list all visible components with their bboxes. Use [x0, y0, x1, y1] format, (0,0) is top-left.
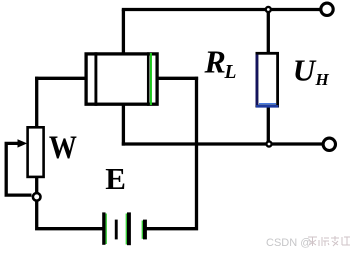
resistor RL	[256, 53, 278, 106]
wire hall left	[35, 77, 87, 80]
wire hall top stub	[122, 10, 125, 56]
svg-text:H: H	[315, 70, 330, 89]
wire top horizontal	[122, 8, 322, 11]
battery E	[102, 212, 147, 245]
junction node bottom	[266, 141, 271, 146]
plate 2 short	[115, 220, 118, 240]
wire hall right	[156, 77, 198, 80]
wire resistor bottom stub	[267, 106, 270, 145]
svg-text:L: L	[224, 62, 237, 83]
wire potentiometer to battery bottom left	[37, 201, 103, 229]
wire left vertical to potentiometer	[35, 77, 38, 129]
plate 4 short	[143, 220, 147, 240]
wire right vertical down to battery	[146, 77, 197, 229]
watermark name glyphs	[308, 236, 350, 246]
hall element body	[86, 52, 157, 106]
svg-text:R: R	[204, 43, 226, 79]
potentiometer W body	[28, 127, 44, 177]
plate 1 long	[102, 212, 105, 244]
svg-text:CSDN @: CSDN @	[266, 237, 311, 249]
wire potentiometer bottom stub	[35, 176, 38, 194]
potentiometer tap ring	[33, 193, 41, 201]
plate 3 long	[127, 212, 131, 245]
wire hall bottom stub	[122, 103, 125, 146]
svg-text:E: E	[105, 161, 126, 196]
wire bottom-mid horizontal to lower terminal	[122, 142, 324, 145]
terminal bottom	[323, 138, 335, 150]
svg-text:W: W	[49, 129, 77, 166]
wiper arrowhead	[18, 139, 28, 147]
wire wiper arm	[6, 143, 31, 195]
svg-text:U: U	[293, 52, 317, 87]
wire resistor top stub	[267, 10, 270, 55]
junction node top	[266, 7, 271, 12]
terminal top	[321, 3, 333, 15]
